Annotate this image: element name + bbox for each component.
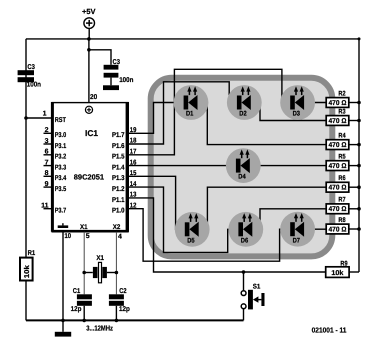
svg-text:R3: R3 xyxy=(338,108,345,115)
LED D3 xyxy=(280,85,315,120)
junction +5V rail xyxy=(87,37,91,41)
pin 18 number xyxy=(130,138,137,145)
junction top-right rail corner xyxy=(358,37,361,40)
svg-text:D7: D7 xyxy=(293,237,301,244)
label pin RST xyxy=(55,117,67,124)
resistor R7 (470 ohm) xyxy=(326,197,361,214)
junction crystal left xyxy=(82,271,86,275)
wire D5 anode to R6 xyxy=(198,187,326,229)
junction S1 tap xyxy=(242,270,246,274)
label pin P1.6 xyxy=(112,143,125,150)
svg-text:X1: X1 xyxy=(80,224,88,231)
pin 11 stub xyxy=(41,203,52,210)
pin 1 number xyxy=(43,111,47,118)
label pin P3.4 xyxy=(55,175,67,182)
svg-text:P1.2: P1.2 xyxy=(112,186,125,193)
pin 7 stub xyxy=(44,159,53,166)
junction decoupling branch xyxy=(87,48,91,52)
svg-text:C2: C2 xyxy=(119,288,126,295)
label drawing number xyxy=(312,325,347,334)
pin 6 stub xyxy=(44,149,53,156)
svg-text:P1.3: P1.3 xyxy=(112,175,125,182)
svg-text:12p: 12p xyxy=(71,306,82,313)
wire D1 anode to R4 xyxy=(197,103,326,145)
svg-text:100n: 100n xyxy=(119,77,133,84)
label pin P1.7 xyxy=(112,132,125,139)
svg-text:9: 9 xyxy=(45,181,49,188)
pin 19 number xyxy=(130,127,137,134)
wire D4 anode to R5 xyxy=(250,165,327,167)
svg-text:89C2051: 89C2051 xyxy=(74,173,104,182)
svg-text:P3.1: P3.1 xyxy=(55,143,67,150)
svg-text:R1: R1 xyxy=(28,250,36,257)
resistor R9 (10k) xyxy=(326,261,359,278)
svg-text:R6: R6 xyxy=(338,175,345,182)
junction C2 ground rail xyxy=(115,319,119,323)
pin 14 number xyxy=(130,181,137,188)
pin 17 number xyxy=(130,149,137,156)
svg-text:2: 2 xyxy=(45,127,49,134)
svg-text:P3.5: P3.5 xyxy=(55,186,67,193)
svg-text:3...12MHz: 3...12MHz xyxy=(86,323,113,332)
svg-text:+5V: +5V xyxy=(82,7,96,16)
svg-text:5: 5 xyxy=(86,233,90,240)
svg-text:R4: R4 xyxy=(338,132,345,139)
label pin P3.5 xyxy=(55,186,67,193)
wire right supply rail xyxy=(358,39,360,272)
svg-text:470 Ω: 470 Ω xyxy=(329,100,348,107)
label pin P1.4 xyxy=(112,165,125,172)
label pin P1.1 xyxy=(112,197,125,204)
label pin P1.2 xyxy=(112,186,125,193)
push-button S1 xyxy=(241,272,264,320)
capacitor C3 (reset, 100n) xyxy=(18,64,41,89)
svg-text:470 Ω: 470 Ω xyxy=(329,118,348,125)
resistor R8 (470 ohm) xyxy=(326,217,361,234)
resistor R5 (470 ohm) xyxy=(326,153,361,170)
pin 4 wire (XTAL2) xyxy=(116,232,122,294)
wire pin 13 to S1/R9 xyxy=(129,198,326,272)
wire pin 12 to D7 cathode xyxy=(129,209,291,262)
svg-text:P3.0: P3.0 xyxy=(55,132,67,139)
svg-text:470 Ω: 470 Ω xyxy=(329,163,348,170)
svg-text:D5: D5 xyxy=(187,237,195,244)
svg-text:P1.1: P1.1 xyxy=(112,197,125,204)
LED D2 xyxy=(227,85,262,120)
svg-text:P3.4: P3.4 xyxy=(55,175,67,182)
pin GND marker (minus bar) xyxy=(58,223,68,228)
label XTAL pin X2 xyxy=(113,224,121,231)
svg-text:D6: D6 xyxy=(241,237,249,244)
crystal X1 xyxy=(84,255,116,283)
wire pin 17 to D3 cathode xyxy=(129,69,291,155)
label pin P3.3 xyxy=(55,165,67,172)
svg-text:C3: C3 xyxy=(27,64,35,71)
svg-text:6: 6 xyxy=(45,149,49,156)
svg-text:7: 7 xyxy=(45,159,49,166)
svg-text:R2: R2 xyxy=(338,90,345,97)
pin 2 stub xyxy=(44,127,53,134)
svg-text:RST: RST xyxy=(55,117,67,124)
junction crystal right xyxy=(115,271,119,275)
svg-text:P1.0: P1.0 xyxy=(112,208,125,215)
svg-text:R8: R8 xyxy=(338,217,345,224)
label pin P1.5 xyxy=(112,154,125,161)
wire left branch (+5V to C3/RST/R1) xyxy=(25,39,27,258)
svg-text:IC1: IC1 xyxy=(85,128,98,138)
wire R1 bottom to ground rail corner xyxy=(25,281,27,321)
+5V supply symbol xyxy=(82,7,96,39)
pin 13 number xyxy=(130,192,137,199)
svg-text:P3.2: P3.2 xyxy=(55,154,67,161)
wire D3 anode to R2 xyxy=(304,102,326,104)
svg-text:470 Ω: 470 Ω xyxy=(329,226,348,233)
wire branch to decoupling cap xyxy=(89,50,111,65)
svg-text:D4: D4 xyxy=(238,174,246,181)
ground symbol (bottom) xyxy=(55,320,71,336)
svg-text:4: 4 xyxy=(118,234,122,241)
svg-text:20: 20 xyxy=(90,94,97,101)
ground (decoupling cap) xyxy=(103,85,119,90)
LED D1 xyxy=(174,85,209,120)
label pin P3.7 xyxy=(55,208,67,215)
pin 20 power marker xyxy=(85,94,97,113)
wire pin 18 to D2 cathode xyxy=(129,82,238,144)
svg-text:12p: 12p xyxy=(119,306,130,313)
wire bottom ground rail xyxy=(26,319,244,321)
svg-text:R5: R5 xyxy=(338,153,345,160)
pin 9 stub xyxy=(44,181,53,188)
wire +5V top rail xyxy=(26,38,359,40)
label XTAL pin X1 xyxy=(80,224,88,231)
junction RST node xyxy=(24,116,28,120)
svg-text:D3: D3 xyxy=(293,111,301,118)
op-amp U1 IC1 89C2051 body xyxy=(52,102,129,232)
wire pin 16 to D4 cathode xyxy=(129,165,237,167)
pin 5 wire (XTAL1) xyxy=(84,232,90,294)
label pin P3.2 xyxy=(55,154,67,161)
svg-text:100n: 100n xyxy=(27,82,41,89)
svg-text:10k: 10k xyxy=(331,269,343,277)
pin 15 number xyxy=(130,170,137,177)
pin 12 number xyxy=(130,202,137,209)
svg-text:R7: R7 xyxy=(338,197,345,204)
wire pin 20 supply xyxy=(88,39,90,102)
svg-text:P1.6: P1.6 xyxy=(112,143,125,150)
svg-text:470 Ω: 470 Ω xyxy=(329,206,348,213)
wire pin 14 to D6 cathode xyxy=(129,187,239,252)
pin 8 stub xyxy=(44,170,53,177)
pin 16 number xyxy=(130,159,137,166)
resistor R6 (470 ohm) xyxy=(326,175,361,192)
LED D4 xyxy=(226,148,261,183)
wire pin 19 to D1 cathode xyxy=(129,103,184,134)
svg-text:1: 1 xyxy=(43,111,47,118)
label pin P1.3 xyxy=(112,175,125,182)
wire RST to IC pin 1 xyxy=(26,117,52,119)
label pin P3.0 xyxy=(55,132,67,139)
svg-text:470 Ω: 470 Ω xyxy=(329,142,348,149)
svg-text:P1.7: P1.7 xyxy=(112,132,125,139)
LED D6 xyxy=(228,212,263,247)
LED D7 xyxy=(280,212,315,247)
wire D7 anode to R8 xyxy=(304,228,326,230)
junction pin10 ground rail xyxy=(61,319,65,323)
svg-text:R9: R9 xyxy=(340,261,347,268)
junction C1 ground rail xyxy=(82,319,86,323)
svg-text:470 Ω: 470 Ω xyxy=(329,185,348,192)
svg-text:8: 8 xyxy=(45,170,49,177)
svg-text:D1: D1 xyxy=(186,111,194,118)
pin 10 wire xyxy=(63,232,71,321)
svg-text:021001 - 11: 021001 - 11 xyxy=(312,325,347,334)
svg-text:D2: D2 xyxy=(239,111,247,118)
capacitor C2 (12p) xyxy=(109,288,130,321)
wire D6 anode to R7 xyxy=(252,209,326,230)
resistor R3 (470 ohm) xyxy=(326,108,361,125)
svg-text:3: 3 xyxy=(45,138,49,145)
resistor R4 (470 ohm) xyxy=(326,132,361,149)
resistor R2 (470 ohm) xyxy=(326,90,361,107)
capacitor C3 (decoupling, 100n) xyxy=(104,59,134,85)
svg-text:P3.3: P3.3 xyxy=(55,165,67,172)
label pin P1.0 xyxy=(112,208,125,215)
svg-text:P3.7: P3.7 xyxy=(55,208,67,215)
svg-text:10k: 10k xyxy=(23,265,31,278)
svg-text:X2: X2 xyxy=(113,224,121,231)
svg-text:X1: X1 xyxy=(96,255,104,262)
capacitor C1 (12p) xyxy=(71,288,92,321)
pin 3 stub xyxy=(44,138,53,145)
svg-text:P1.5: P1.5 xyxy=(112,154,125,161)
label crystal frequency xyxy=(86,323,113,332)
svg-text:C1: C1 xyxy=(73,288,80,295)
resistor R1 (10k) xyxy=(20,250,35,280)
LED D5 xyxy=(175,212,210,247)
label pin P3.1 xyxy=(55,143,67,150)
LED panel outline (dice face) xyxy=(151,78,333,257)
svg-text:P1.4: P1.4 xyxy=(112,165,125,172)
svg-text:C3: C3 xyxy=(113,59,121,66)
svg-text:11: 11 xyxy=(41,203,49,210)
wire pin 15 to D5 cathode xyxy=(129,176,185,229)
svg-text:S1: S1 xyxy=(253,283,261,290)
wire D2 anode to R3 xyxy=(251,103,326,121)
svg-text:10: 10 xyxy=(65,233,72,240)
